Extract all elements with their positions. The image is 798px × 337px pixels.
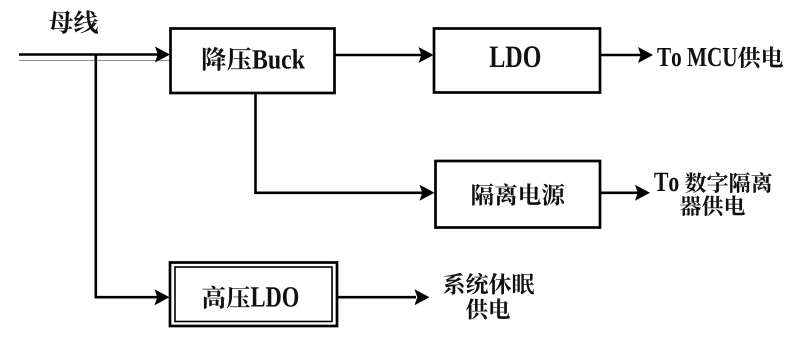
block isolated supply 隔离电源 — [436, 161, 601, 228]
label 器供电 (line 2) — [680, 195, 745, 216]
arrowhead to digital isolator label — [635, 185, 650, 201]
arrowhead bus into buck block — [155, 47, 170, 63]
block HV LDO outer border 高压LDO — [170, 263, 337, 327]
label 隔离电源 — [472, 183, 564, 205]
wire bus shadow echo — [19, 60, 171, 62]
arrowhead to sleep supply label — [415, 289, 430, 305]
block buck converter 降压Buck — [171, 29, 335, 94]
wire HV LDO to sleep supply label — [337, 296, 416, 299]
wire buck bottom drop to isolated supply — [256, 93, 424, 193]
label 供电 (line 2) — [466, 298, 510, 319]
arrowhead to MCU supply label — [638, 47, 653, 63]
net label 母线 (bus) — [49, 10, 98, 33]
wire isolated supply to digital isolator label — [600, 192, 638, 195]
label 系统休眠 (line 1) — [443, 273, 534, 295]
arrowhead into isolated supply block — [420, 185, 435, 201]
label LDO — [490, 46, 541, 67]
label To 数字隔离 (line 1) — [654, 172, 772, 193]
wire left branch vertical + to HV LDO — [96, 55, 158, 298]
wire buck to LDO — [335, 54, 423, 57]
wire LDO to MCU supply — [600, 54, 641, 57]
wire bus main horizontal — [19, 53, 158, 56]
block HV LDO inner border — [175, 267, 332, 322]
label 高压LDO — [203, 286, 299, 309]
label 降压Buck — [203, 47, 305, 71]
arrowhead into LDO block — [419, 47, 434, 63]
arrowhead into HV LDO block — [155, 289, 170, 305]
label To MCU供电 — [657, 46, 783, 68]
block LDO — [434, 29, 600, 93]
